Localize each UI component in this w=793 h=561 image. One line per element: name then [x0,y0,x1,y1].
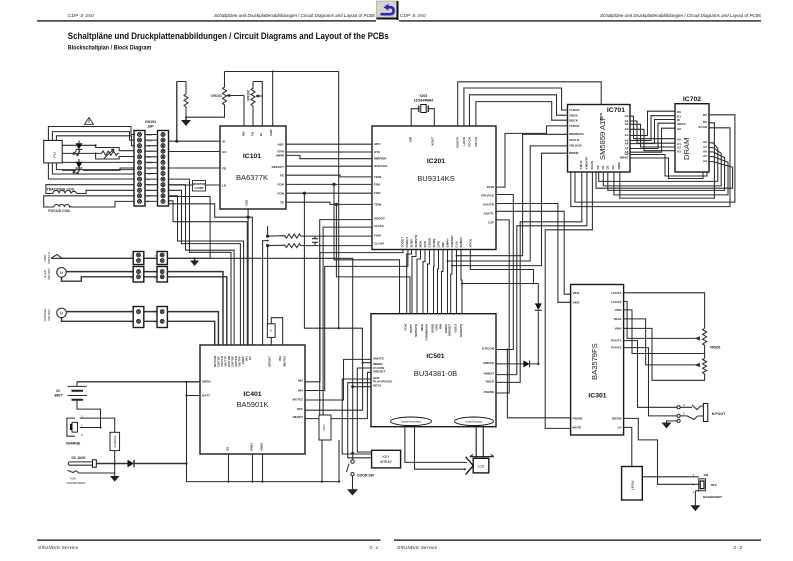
svg-text:DC150/VMAX: DC150/VMAX [67,481,86,485]
return button [377,1,399,20]
svg-text:IC101: IC101 [243,153,261,160]
wire AOUTL to VIN1 [496,211,571,294]
svg-text:POUT1: POUT1 [611,339,622,343]
svg-text:A3: A3 [625,127,629,131]
wire VDD rail join [338,327,340,329]
svg-text:VIN2: VIN2 [573,300,580,304]
svg-text:DC JACK: DC JACK [72,456,87,460]
wire TE branch down to IC501 [336,204,410,313]
tracking coil wires [46,185,134,194]
wire photodiode top rail [62,145,134,150]
svg-text:VM51: VM51 [250,443,254,451]
svg-text:YLRCK: YLRCK [569,108,580,112]
svg-text:FOCUS COIL: FOCUS COIL [48,209,71,213]
wire SDOUT drop [320,220,372,415]
monitor laser box [193,181,206,192]
svg-text:ZSENS: ZSENS [484,390,494,394]
svg-text:DRAM: DRAM [682,138,691,160]
svg-text:BATT: BATT [202,393,210,397]
svg-text:D2: D2 [606,165,610,169]
svg-text:MUTE3: MUTE3 [283,356,287,367]
svg-text:IC501: IC501 [426,353,444,360]
svg-text:BA3579FS: BA3579FS [590,343,599,380]
LCD box [473,458,489,473]
svg-text:D3: D3 [611,165,615,169]
svg-text:LP: LP [618,425,622,429]
diode D dc input [96,460,187,467]
svg-text:PDOUT: PDOUT [405,237,409,248]
LPSW box [622,467,643,501]
wire LOUT1 to VR301 top [624,293,705,329]
connector sled pair [130,267,171,283]
svg-text:RB: RB [242,131,246,136]
wire spindle motor to IC401 OUTDR/OUTDF [167,312,218,345]
svg-text:XRESET: XRESET [373,370,385,374]
svg-text:VR102: VR102 [247,90,251,101]
svg-text:GPS: GPS [437,241,441,248]
svg-text:GRUNDIG Service: GRUNDIG Service [397,545,438,550]
svg-text:SWITCH: SWITCH [47,252,51,264]
svg-text:IO: IO [222,140,226,144]
svg-text:MCK: MCK [420,323,424,331]
wire AOUTR to VIN2 [496,204,571,303]
warning triangle [85,118,94,125]
wire CLK branch to DBRDATA [457,134,568,255]
wire IC701 YMDATA to IC501 YMDAT [496,172,587,375]
svg-text:YMLD: YMLD [579,160,583,170]
svg-text:PWSW: PWSW [573,416,583,420]
spindle motor [43,308,66,321]
wire LRCK to YLRCK [464,88,568,126]
svg-text:AOUTR: AOUTR [483,203,495,207]
svg-text:FOK: FOK [374,182,381,186]
svg-text:GRUNDIG Service: GRUNDIG Service [38,545,79,550]
header right rule [399,20,761,21]
svg-text:TRACKING COIL: TRACKING COIL [47,188,76,192]
wire IC701 XCAS branch to MUTE [545,172,592,428]
capacitor pack box [319,415,340,483]
svg-text:RW: RW [441,242,445,247]
wire RESET to XRESET [305,372,371,418]
wire weave IC701 to IC702 address/data [630,111,707,178]
svg-text:CLVFA: CLVFA [374,224,385,228]
svg-text:BA5901K: BA5901K [236,400,268,409]
svg-text:DBINS: DBINS [569,151,579,155]
capacitor across FSW/CLVSA [312,236,318,246]
svg-text:A2: A2 [625,122,629,126]
svg-text:MCK: MCK [419,240,423,248]
wire bundle CN101 bottom to IC401 top [169,179,253,345]
svg-text:D1: D1 [601,165,605,169]
wire ellipse keyboard to key array / LCD arrows [405,426,467,470]
svg-text:SDEN: SDEN [202,379,211,383]
power rail bottom [187,440,340,482]
svg-text:MOTOR: MOTOR [47,309,51,321]
wire LOUT2 to VR301a wiper [624,301,696,338]
svg-text:X201: X201 [420,94,428,98]
svg-text:A4: A4 [703,159,707,163]
svg-text:DFLRCK: DFLRCK [481,194,494,198]
svg-text:SS: SS [226,447,230,451]
wire VIN4 to VR301 bottom [624,328,705,380]
svg-text:NRAS: NRAS [620,156,629,160]
potentiometer VR101 [186,72,244,127]
svg-text:VR301: VR301 [710,346,721,350]
svg-text:CLK: CLK [455,240,459,247]
svg-text:POUT2: POUT2 [611,346,622,350]
svg-text:H.PCON: H.PCON [482,347,495,351]
charge switch [66,415,115,446]
svg-text:VM52: VM52 [260,443,264,451]
svg-text:CDP-S 350: CDP-S 350 [68,13,94,18]
svg-text:FSW: FSW [374,234,381,238]
svg-text:YBCK: YBCK [569,113,579,117]
potentiometer VR102 [247,82,263,127]
svg-text:PACK: PACK [323,424,326,431]
svg-text:DEFECT: DEFECT [272,165,284,169]
DC jack [67,456,115,485]
svg-text:A3: A3 [677,149,681,153]
footer left rule [37,539,381,541]
wire XPCK drop [470,250,533,284]
wire CDCK to YBCK [470,95,568,126]
svg-text:A8: A8 [703,140,707,144]
svg-text:XMUTE: XMUTE [373,357,384,361]
wire CUCON to key array [357,368,371,452]
microcontroller IC501 BU34381-0B box [371,314,496,427]
wire LP to LPSW [624,427,632,466]
svg-text:D0: D0 [596,165,600,169]
wire PDOUT to IN4 [305,250,408,391]
svg-text:IC301: IC301 [588,393,606,400]
svg-text:LPSW: LPSW [631,480,635,490]
svg-text:XIN: XIN [409,136,413,142]
wire limit switch row [62,257,195,259]
svg-text:DP CK: DP CK [474,136,478,146]
svg-text:M: M [60,271,63,275]
wire SS VM51 VM52 to rail [229,454,263,482]
svg-text:XRAS: XRAS [677,122,686,126]
svg-text:OFF: OFF [297,407,303,411]
wire DOUTA to IC701 top [458,82,602,126]
wire AMUTE diode chain [461,282,542,367]
charge resistor box [110,432,120,476]
wire PU 3rd loop to CN101 pin7 [56,136,134,170]
svg-text:VIN4: VIN4 [615,327,622,331]
wire CN101 to IC101 left pins [169,82,221,186]
decoder IC701 SM5859 A1F box [568,105,631,173]
svg-text:ABY: ABY [277,143,284,147]
svg-text:board-keyboard: board-keyboard [401,420,421,424]
wire DFIN to TLRCK [496,126,568,187]
resistor monitor (zigzag) in PU [96,151,120,155]
svg-text:FE: FE [280,174,284,178]
wire limit switch to door switch line [195,258,353,386]
footer right rule [394,539,761,541]
wire branch to DBINS [452,153,568,265]
wire sled motor [62,272,158,282]
svg-text:A4: A4 [625,133,629,137]
svg-text:XRESET: XRESET [448,324,452,336]
svg-text:SCK: SCK [423,240,427,247]
svg-text:LCD: LCD [478,465,485,469]
wire CLVFA drop [323,227,372,415]
svg-text:CLVSA: CLVSA [374,242,385,246]
svg-text:NWE: NWE [617,162,621,169]
wire FON branch down [304,193,371,363]
svg-text:SUBY: SUBY [410,238,414,248]
svg-text:BIAS: BIAS [614,317,621,321]
svg-text:CN101: CN101 [145,120,156,124]
svg-text:VFCLK: VFCLK [569,138,580,142]
svg-text:VDD: VDD [269,129,273,136]
wire MUTE2 to XMUTE [305,359,371,400]
wire bus IC201 bottom to IC501 top [407,250,462,314]
svg-text:IC701: IC701 [607,107,625,114]
battery 3V [55,382,101,428]
wire photodiode mid rail with resistor loop [62,153,134,159]
svg-text:CHARGE: CHARGE [66,442,81,446]
svg-text:XRESET: XRESET [450,235,454,247]
svg-text:IC401: IC401 [243,391,261,398]
svg-text:A0: A0 [625,114,629,118]
svg-text:BATT: BATT [55,394,63,398]
svg-text:EYE: EYE [374,150,380,154]
svg-text:BBSW: BBSW [612,416,622,420]
svg-text:RESET: RESET [293,415,303,419]
svg-text:DBCK: DBCK [569,118,579,122]
svg-text:AOUTL: AOUTL [483,212,494,216]
wire branch to YBLKCK [448,146,568,261]
crystal X201 [411,94,434,126]
svg-text:SUBSYQ: SUBSYQ [459,323,463,337]
wire HPCON to PWSW [496,350,571,418]
wire TDOUT to IN3 [305,250,403,382]
svg-text:ARRAY: ARRAY [380,460,393,464]
ground below R [181,116,191,126]
svg-text:LASER: LASER [195,186,204,190]
svg-text:3 - 1: 3 - 1 [369,545,378,550]
ferrite bead FB to DPOUT [267,226,282,345]
svg-text:MOTOR: MOTOR [47,268,51,280]
wire BIAS to VR301b wiper [624,319,696,365]
junction dots photodiode rails [95,144,97,146]
svg-text:BA6377K: BA6377K [236,173,268,182]
svg-text:BASSBOOST: BASSBOOST [703,495,722,499]
svg-text:OSC3: OSC3 [454,324,458,333]
svg-text:COMMAND: COMMAND [425,323,429,340]
svg-text:SDOUT: SDOUT [374,217,385,221]
wire POUT2 to jack pin2 [624,348,677,416]
wire OFF to INNER junction [305,363,363,411]
svg-text:YMDAT: YMDAT [483,372,494,376]
svg-text:AC: AC [222,150,227,154]
wire PU outer loop to CN101 pin1/pin9 [48,127,134,180]
svg-text:Schaltpläne und Druckplattenab: Schaltpläne und Druckplattenabbildungen … [600,13,762,18]
svg-text:FON: FON [277,192,284,196]
svg-text:VIN3: VIN3 [615,308,622,312]
svg-text:YMLD: YMLD [485,379,495,383]
svg-text:DPOUT: DPOUT [268,356,272,367]
svg-text:Blockschaltplan / Block Diagra: Blockschaltplan / Block Diagram [68,44,152,51]
wire sled motor to IC401 OUTTR/OUTTF [167,272,226,345]
svg-text:EI: EI [259,133,263,136]
svg-text:FOK: FOK [404,323,408,330]
svg-text:SCRACH: SCRACH [374,164,388,168]
wire DPCK to DBCK [476,102,568,126]
svg-text:XOUT: XOUT [431,137,435,146]
svg-text:TLRCK: TLRCK [569,124,580,128]
svg-text:board-display: board-display [466,420,483,424]
wire DFLRCK to HPCON riser [496,195,513,350]
svg-text:IC201: IC201 [427,158,445,165]
svg-text:VSRD: VSRD [599,112,603,121]
svg-text:MUTE: MUTE [573,425,582,429]
wire C2F to ZSENS [496,220,509,393]
connector spindle pair [130,307,171,328]
svg-text:DBRDATA: DBRDATA [569,132,585,136]
connector ellipse board-keyboard on IC501 [391,417,432,426]
wire FSW junction left drop [263,241,268,345]
svg-text:SUBSY: SUBSY [459,236,463,248]
svg-text:YBLKCK: YBLKCK [569,143,583,147]
potentiometer VR301 lower [696,358,707,374]
svg-text:TE: TE [280,201,284,205]
wire FOK branch down to IC501 [334,184,400,313]
svg-text:A7: A7 [703,145,707,149]
svg-text:CD CK: CD CK [468,136,472,147]
svg-text:ON: ON [704,473,709,477]
memory IC702 DRAM box [675,96,709,172]
ground below charge resistor [110,476,120,482]
junction SDEN/BATT vertical [185,381,187,383]
wire PU 2nd loop to CN101 pin2/pin8 [52,132,134,174]
svg-text:M: M [60,312,63,316]
svg-text:VSS: VSS [245,200,249,206]
key array box [372,450,401,468]
svg-text:BU34381-0B: BU34381-0B [414,369,457,378]
svg-text:MUTE2: MUTE2 [293,397,304,401]
svg-text:FOK: FOK [277,183,284,187]
long VDD rail drop [338,72,340,329]
filter resistor R201 FSW line [267,234,373,248]
photodiode D2 [73,159,83,174]
svg-text:DFIN: DFIN [487,185,495,189]
svg-text:FON: FON [374,191,381,195]
wire ellipse display to LCD top bus [470,426,494,459]
svg-text:PU: PU [52,152,57,158]
sled motor [43,268,66,280]
wire SDEN from battery to IC401 [77,381,200,383]
door switch [347,460,375,496]
svg-text:D2: D2 [703,120,707,124]
VDD top rail [225,72,339,127]
wire VIN3 to VR301 mid [624,310,705,354]
svg-text:YMDATA: YMDATA [585,156,589,170]
svg-text:A0: A0 [677,137,681,141]
wire LPSW to switch pin3 [642,476,695,478]
wire BBSW to bass boost switch [624,418,699,484]
dsp IC201 BU9314KS box [372,126,496,250]
svg-text:Schaltpläne und Druckplattenab: Schaltpläne und Druckplattenabbildungen … [68,31,389,41]
connector CN101 right strip [147,131,169,207]
svg-text:LOUT2: LOUT2 [611,300,621,304]
svg-text:3 - 2: 3 - 2 [733,545,742,550]
svg-text:XPCK: XPCK [468,238,472,247]
ground at limit switch [190,257,199,266]
svg-text:TDOUT: TDOUT [401,237,405,248]
svg-text:BU9314KS: BU9314KS [417,174,455,183]
svg-text:CF: CF [248,356,252,360]
svg-text:CHARGE: CHARGE [113,435,117,447]
limit switch symbol [43,252,62,264]
svg-text:EMPH: EMPH [446,238,450,248]
op-amp feed resistor R near IC101 (left) [184,82,188,118]
svg-text:A9: A9 [677,127,681,131]
svg-text:KEY0: KEY0 [373,384,381,388]
connector limit switch pair [130,252,167,265]
svg-text:VIN1: VIN1 [573,291,580,295]
svg-text:DOUTA: DOUTA [456,136,460,148]
potentiometer VR301 upper [696,328,707,358]
svg-text:TEIN: TEIN [374,202,382,206]
bracket wire over R [177,82,186,142]
connector ellipse board-display on IC501 [455,417,494,426]
svg-text:IN2: IN2 [278,356,282,361]
svg-text:A6: A6 [703,149,707,153]
svg-text:IN3: IN3 [298,378,303,382]
svg-text:BUSY: BUSY [409,323,413,333]
header left rule [37,20,376,21]
svg-text:DOOR SW: DOOR SW [357,474,374,478]
connector CN101 left strip [134,131,145,207]
svg-text:AMUTE: AMUTE [483,361,494,365]
svg-text:SUBSTQ: SUBSTQ [414,323,418,336]
svg-text:IC702: IC702 [683,96,701,103]
bus arrow into LCD [466,457,474,475]
wire wrap below IC701/IC702 to DRAM right pins [571,115,735,207]
svg-text:SUBQ: SUBQ [432,238,436,248]
svg-text:MONITOR: MONITOR [193,182,205,186]
focus coil wires [44,196,134,207]
svg-text:XCAS: XCAS [698,125,707,129]
svg-text:COMD: COMD [428,237,432,247]
svg-text:RW: RW [439,324,443,329]
svg-text:A6: A6 [625,141,629,145]
svg-text:VR101: VR101 [211,94,222,98]
tracking coil inductor [53,191,77,194]
svg-text:XCAS: XCAS [590,161,594,170]
svg-text:MIRR: MIRR [276,154,285,158]
svg-text:LRCK: LRCK [462,136,466,145]
wire IC701 YMLD to IC501 YMLD [496,172,582,382]
svg-text:C2F: C2F [488,221,494,225]
headphone jack H.POUT [662,403,727,429]
wire IC101 right pins to IC201 left pins [286,144,372,205]
wire POUT1 to jack pin3 [624,341,677,408]
photodiode D1 [73,141,83,156]
svg-text:LOUT1: LOUT1 [611,291,621,295]
op-amp IC101 BA6377K servo driver box [220,126,286,209]
svg-text:CDP-S 350: CDP-S 350 [400,13,426,18]
svg-text:FEIN: FEIN [374,175,382,179]
svg-text:ABY: ABY [374,142,381,146]
svg-text:OFF: OFF [711,483,717,487]
svg-text:Schaltpläne und Druckplattenab: Schaltpläne und Druckplattenabbildungen … [214,13,376,18]
svg-text:MIRROR: MIRROR [374,157,387,161]
svg-text:IN4: IN4 [298,388,303,392]
wire photodiode2 rails [62,162,134,170]
